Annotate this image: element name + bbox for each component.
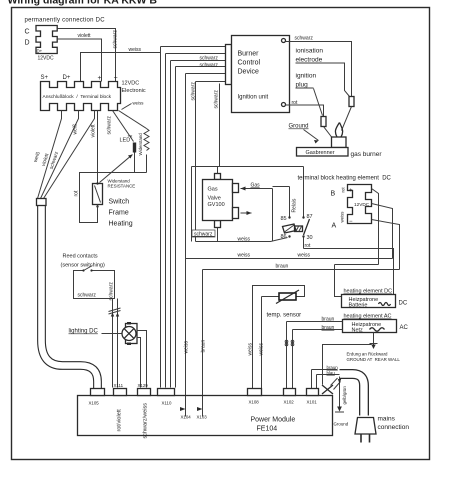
svg-text:schwarz: schwarz — [295, 36, 314, 42]
svg-text:X111: X111 — [114, 383, 124, 388]
svg-text:X108: X108 — [249, 400, 260, 405]
svg-text:weiss: weiss — [133, 101, 145, 106]
svg-text:GV100: GV100 — [208, 202, 225, 208]
svg-text:weiss: weiss — [184, 340, 190, 353]
svg-text:+κ: +κ — [128, 134, 134, 139]
svg-text:Widerstand: Widerstand — [138, 133, 143, 156]
svg-text:mains: mains — [378, 416, 396, 423]
svg-text:lighting DC: lighting DC — [69, 329, 99, 335]
svg-text:Burner: Burner — [238, 51, 260, 58]
svg-text:weiss: weiss — [298, 253, 311, 259]
svg-text:schwarz/weiss: schwarz/weiss — [143, 403, 149, 439]
svg-text:rot: rot — [341, 187, 346, 193]
svg-text:Heating: Heating — [109, 221, 133, 228]
svg-text:Ground: Ground — [289, 124, 309, 130]
svg-text:Power Module: Power Module — [251, 417, 296, 424]
svg-text:FE104: FE104 — [257, 426, 278, 433]
svg-text:gas burner: gas burner — [351, 151, 383, 158]
svg-text:D+: D+ — [63, 75, 71, 81]
svg-text:12VDC: 12VDC — [38, 56, 55, 62]
svg-text:schwarz: schwarz — [200, 63, 219, 69]
svg-text:Electronic: Electronic — [122, 88, 146, 94]
svg-text:X105: X105 — [89, 401, 100, 406]
svg-text:braun: braun — [201, 339, 207, 352]
svg-text:connection: connection — [378, 424, 410, 431]
svg-text:violett: violett — [91, 124, 97, 138]
svg-text:Ignition unit: Ignition unit — [238, 95, 269, 101]
svg-text:Switch: Switch — [109, 199, 130, 206]
svg-text:schwarz: schwarz — [109, 282, 115, 301]
svg-text:ignition: ignition — [296, 73, 317, 80]
svg-text:Gasbrenner: Gasbrenner — [306, 150, 335, 156]
svg-text:Control: Control — [238, 60, 261, 67]
svg-text:12VDC: 12VDC — [354, 202, 370, 207]
svg-text:weiss: weiss — [340, 211, 345, 223]
svg-text:C: C — [25, 29, 30, 36]
svg-text:−: − — [114, 75, 118, 82]
svg-text:braun: braun — [276, 264, 289, 270]
svg-text:weiss: weiss — [248, 342, 254, 355]
svg-text:X102: X102 — [284, 400, 295, 405]
svg-text:electrode: electrode — [296, 57, 323, 64]
svg-text:Relais: Relais — [292, 198, 298, 212]
svg-text:violett: violett — [78, 33, 92, 39]
svg-text:Anschlußblock / Terminal blo: Anschlußblock / Terminal block — [43, 94, 112, 100]
svg-text:rot/violett: rot/violett — [117, 409, 123, 432]
svg-text:heating element AC: heating element AC — [344, 314, 392, 320]
svg-text:RESISTANCE: RESISTANCE — [108, 184, 136, 189]
svg-text:Reed contacts: Reed contacts — [63, 254, 98, 260]
svg-text:braun: braun — [327, 365, 339, 370]
svg-text:85: 85 — [281, 216, 287, 222]
svg-text:Device: Device — [238, 69, 260, 76]
svg-text:S+: S+ — [41, 75, 49, 81]
svg-text:schwarz: schwarz — [200, 56, 219, 62]
svg-text:ionisation: ionisation — [296, 48, 324, 55]
svg-text:schwarz: schwarz — [214, 90, 220, 109]
svg-text:12VDC: 12VDC — [122, 81, 140, 87]
svg-text:Valve: Valve — [208, 196, 221, 202]
svg-text:GROUND AT REAR WALL: GROUND AT REAR WALL — [347, 357, 401, 362]
svg-text:X110: X110 — [162, 401, 172, 406]
svg-text:weiss: weiss — [129, 47, 142, 53]
svg-text:gelb/grün: gelb/grün — [342, 386, 347, 405]
svg-text:terminal block heating element: terminal block heating element DC — [298, 176, 392, 182]
svg-text:permanently connection DC: permanently connection DC — [25, 18, 106, 24]
svg-text:X101: X101 — [307, 400, 318, 405]
svg-text:weiss: weiss — [238, 253, 251, 259]
svg-text:+: + — [98, 75, 102, 82]
svg-text:X129: X129 — [138, 383, 149, 388]
svg-text:blau: blau — [327, 371, 336, 376]
svg-text:DC: DC — [399, 301, 408, 307]
svg-text:Frame: Frame — [109, 210, 129, 217]
svg-text:AC: AC — [400, 325, 409, 331]
svg-text:temp. sensor: temp. sensor — [267, 313, 302, 319]
svg-text:B: B — [331, 191, 336, 198]
svg-text:weiß: weiß — [73, 124, 79, 135]
svg-text:plug: plug — [296, 82, 309, 89]
svg-text:Netz: Netz — [352, 328, 364, 334]
svg-text:weiss: weiss — [259, 342, 265, 355]
svg-text:braun: braun — [322, 325, 335, 331]
svg-text:X103: X103 — [197, 415, 208, 420]
svg-text:schwarz: schwarz — [191, 82, 197, 101]
svg-text:schwarz: schwarz — [113, 30, 119, 49]
svg-text:Gas: Gas — [251, 183, 261, 189]
svg-text:Ground: Ground — [334, 422, 349, 427]
svg-text:(sensor switching): (sensor switching) — [61, 263, 105, 269]
svg-text:30: 30 — [307, 235, 313, 241]
svg-text:schwarz: schwarz — [107, 116, 113, 135]
svg-text:A: A — [332, 223, 337, 230]
svg-text:Gas: Gas — [208, 187, 218, 193]
svg-text:heating element DC: heating element DC — [344, 289, 393, 295]
svg-text:Wiring diagram for KA KKW B: Wiring diagram for KA KKW B — [8, 0, 158, 7]
svg-text:Batterie: Batterie — [349, 303, 368, 309]
svg-text:D+: D+ — [37, 49, 43, 54]
svg-text:rot: rot — [74, 190, 80, 196]
svg-text:schwarz: schwarz — [78, 293, 97, 299]
svg-text:−: − — [349, 219, 353, 225]
svg-text:D: D — [25, 40, 30, 47]
svg-text:X104: X104 — [181, 415, 192, 420]
svg-text:+: + — [349, 188, 353, 194]
svg-text:Erdung an Rückward: Erdung an Rückward — [347, 352, 389, 357]
